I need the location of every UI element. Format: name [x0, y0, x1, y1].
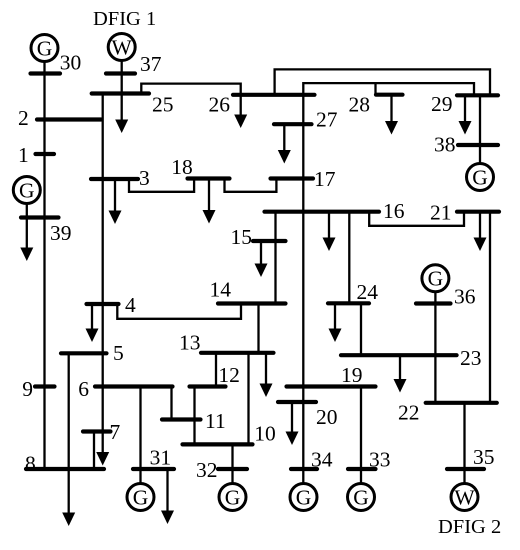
wire chain 30-2-1-39-9-8 — [43, 62, 45, 470]
wire G39 stem — [26, 204, 28, 218]
bus 10 — [183, 442, 253, 446]
load arrow bus 3 — [109, 179, 122, 224]
load arrow bus 16 — [323, 212, 336, 251]
svg-text:3: 3 — [139, 166, 150, 190]
bus 35 — [447, 467, 484, 471]
bus 1 — [36, 152, 55, 156]
wire 14-13 — [257, 304, 259, 353]
load arrow bus 13 — [260, 353, 273, 397]
bus 33 — [348, 467, 376, 471]
svg-text:W: W — [454, 485, 475, 509]
wire 26-29 — [275, 69, 490, 94]
svg-text:DFIG 2: DFIG 2 — [438, 516, 501, 538]
bus 3 — [91, 177, 138, 181]
svg-text:7: 7 — [110, 420, 121, 444]
svg-text:15: 15 — [231, 225, 253, 249]
bus 24 — [328, 301, 369, 305]
svg-text:17: 17 — [314, 167, 336, 191]
wire 29-38 and G stem — [479, 95, 481, 164]
load arrow bus 27 — [278, 124, 291, 163]
wire DFIG1 37-25 — [121, 61, 123, 94]
svg-text:36: 36 — [454, 285, 476, 309]
svg-text:4: 4 — [125, 293, 136, 317]
load arrow bus 25 — [115, 94, 128, 134]
wire 24-23 — [360, 304, 362, 355]
bus 34 — [291, 467, 317, 471]
load arrow bus 26 — [234, 95, 247, 129]
svg-text:G: G — [472, 165, 488, 189]
svg-text:10: 10 — [254, 422, 276, 446]
svg-text:G: G — [37, 36, 53, 60]
wire 10-32 and G stem — [231, 444, 233, 483]
svg-text:27: 27 — [316, 108, 338, 132]
svg-text:22: 22 — [398, 401, 420, 425]
bus 2 — [37, 117, 101, 121]
bus 25 — [92, 91, 149, 95]
wire 6-11 — [170, 387, 172, 420]
generator G38 — [467, 164, 494, 191]
bus 22 — [426, 401, 497, 405]
bus 20 — [278, 400, 316, 404]
generator G30 — [31, 35, 58, 62]
wire 18-17 — [225, 179, 277, 192]
bus 23 — [341, 353, 457, 357]
load arrow bus 4 — [86, 304, 99, 342]
bus 8 — [26, 467, 104, 471]
wire 16-21 — [369, 212, 464, 226]
load arrow bus 31 — [161, 469, 174, 524]
wire 7-8 — [93, 432, 95, 470]
bus 36 — [416, 301, 451, 305]
load arrow bus 21 — [474, 212, 487, 251]
bus 9 — [35, 384, 55, 388]
bus 39 — [21, 215, 59, 219]
load arrow bus 8 — [62, 513, 75, 527]
wire 6-31 and G stem — [139, 387, 141, 484]
bus 19 — [287, 384, 376, 388]
wire 19-33 and G stem — [360, 387, 362, 484]
bus 5 — [61, 351, 107, 355]
bus 17 — [271, 176, 314, 180]
svg-text:33: 33 — [369, 448, 391, 472]
svg-text:21: 21 — [430, 201, 452, 225]
bus 29 — [457, 93, 498, 97]
load arrow bus 24 — [329, 304, 342, 342]
svg-text:G: G — [19, 178, 35, 202]
generator G32 — [219, 484, 246, 511]
wire chain 25-2-3-4-5-6-7 — [102, 94, 104, 453]
wire 16-15-14 — [274, 212, 276, 304]
wire G36-36-23-22 — [434, 292, 436, 403]
wire 3-18 — [129, 179, 194, 192]
svg-text:39: 39 — [50, 221, 72, 245]
wire 11-10 — [193, 420, 195, 445]
generator G31 — [127, 484, 154, 511]
bus 38 — [458, 143, 498, 147]
wind generator W35 — [451, 484, 478, 511]
bus 11 — [162, 417, 201, 421]
wire 4-14 — [117, 304, 241, 319]
svg-text:29: 29 — [431, 92, 453, 116]
svg-text:G: G — [225, 485, 241, 509]
svg-text:37: 37 — [140, 52, 162, 76]
bus 15 — [253, 239, 286, 243]
bus 28 — [376, 93, 403, 97]
load arrow bus 29 — [459, 95, 472, 135]
load arrow bus 39 — [20, 218, 33, 262]
svg-text:32: 32 — [196, 458, 218, 482]
svg-text:12: 12 — [218, 363, 240, 387]
svg-text:38: 38 — [434, 132, 456, 156]
svg-text:20: 20 — [316, 405, 338, 429]
load arrow bus 18 — [203, 179, 216, 224]
wire chain 26-27-17-16-19-20-34 — [302, 95, 304, 484]
svg-text:G: G — [353, 485, 369, 509]
generator G39 — [13, 177, 40, 204]
load arrow bus 7 — [96, 452, 109, 466]
wire 13-12 — [215, 353, 217, 387]
load arrow bus 15 — [255, 240, 268, 277]
generator G34 — [290, 484, 317, 511]
svg-text:2: 2 — [18, 106, 29, 130]
bus 14 — [218, 301, 286, 305]
bus 26 — [233, 93, 315, 97]
wire 16-24 — [348, 212, 350, 304]
svg-text:30: 30 — [60, 50, 82, 74]
svg-text:W: W — [112, 35, 133, 59]
bus 18 — [188, 176, 230, 180]
wire 22-35 and W stem — [463, 403, 465, 484]
wire 25-26 — [141, 84, 240, 95]
wire 12-11 — [193, 387, 195, 420]
wind generator W37 — [108, 34, 135, 61]
wire 21-22 — [489, 212, 491, 403]
svg-text:14: 14 — [210, 278, 232, 302]
bus 21 — [457, 210, 499, 214]
svg-text:25: 25 — [152, 93, 174, 117]
bus 30 — [31, 71, 61, 75]
svg-text:1: 1 — [18, 143, 29, 167]
svg-text:24: 24 — [357, 280, 379, 304]
bus 6 — [95, 384, 173, 388]
bus 7 — [83, 429, 111, 433]
bus 32 — [218, 467, 247, 471]
svg-text:35: 35 — [473, 445, 495, 469]
bus 31 — [133, 467, 174, 471]
generator G33 — [348, 484, 375, 511]
svg-text:11: 11 — [205, 409, 226, 433]
svg-text:DFIG 1: DFIG 1 — [93, 8, 156, 30]
load arrow bus 23 — [394, 355, 407, 392]
svg-text:16: 16 — [383, 199, 405, 223]
svg-text:8: 8 — [25, 452, 36, 476]
svg-text:34: 34 — [311, 448, 333, 472]
svg-text:6: 6 — [78, 377, 89, 401]
svg-text:G: G — [428, 267, 444, 291]
svg-text:23: 23 — [460, 346, 482, 370]
svg-text:G: G — [296, 485, 312, 509]
svg-text:26: 26 — [209, 93, 231, 117]
wire 13-10 — [247, 353, 249, 445]
bus 16 — [265, 210, 380, 214]
bus 27 — [274, 122, 312, 126]
svg-text:5: 5 — [113, 341, 124, 365]
wire drop to bus 28 — [374, 83, 376, 94]
bus 12 — [190, 384, 226, 388]
svg-text:31: 31 — [150, 445, 172, 469]
wire 5-8 — [68, 353, 70, 513]
svg-text:9: 9 — [22, 377, 33, 401]
svg-text:28: 28 — [349, 93, 371, 117]
wire 26-28-29 — [303, 83, 474, 94]
bus 13 — [201, 351, 274, 355]
svg-text:18: 18 — [171, 155, 193, 179]
bus 4 — [87, 302, 119, 306]
svg-text:19: 19 — [341, 363, 363, 387]
svg-text:G: G — [133, 485, 149, 509]
svg-text:13: 13 — [179, 330, 201, 354]
load arrow bus 20 — [286, 402, 299, 445]
bus 37 — [106, 71, 135, 75]
load arrow bus 28 — [385, 94, 398, 135]
generator G36 — [422, 265, 449, 292]
